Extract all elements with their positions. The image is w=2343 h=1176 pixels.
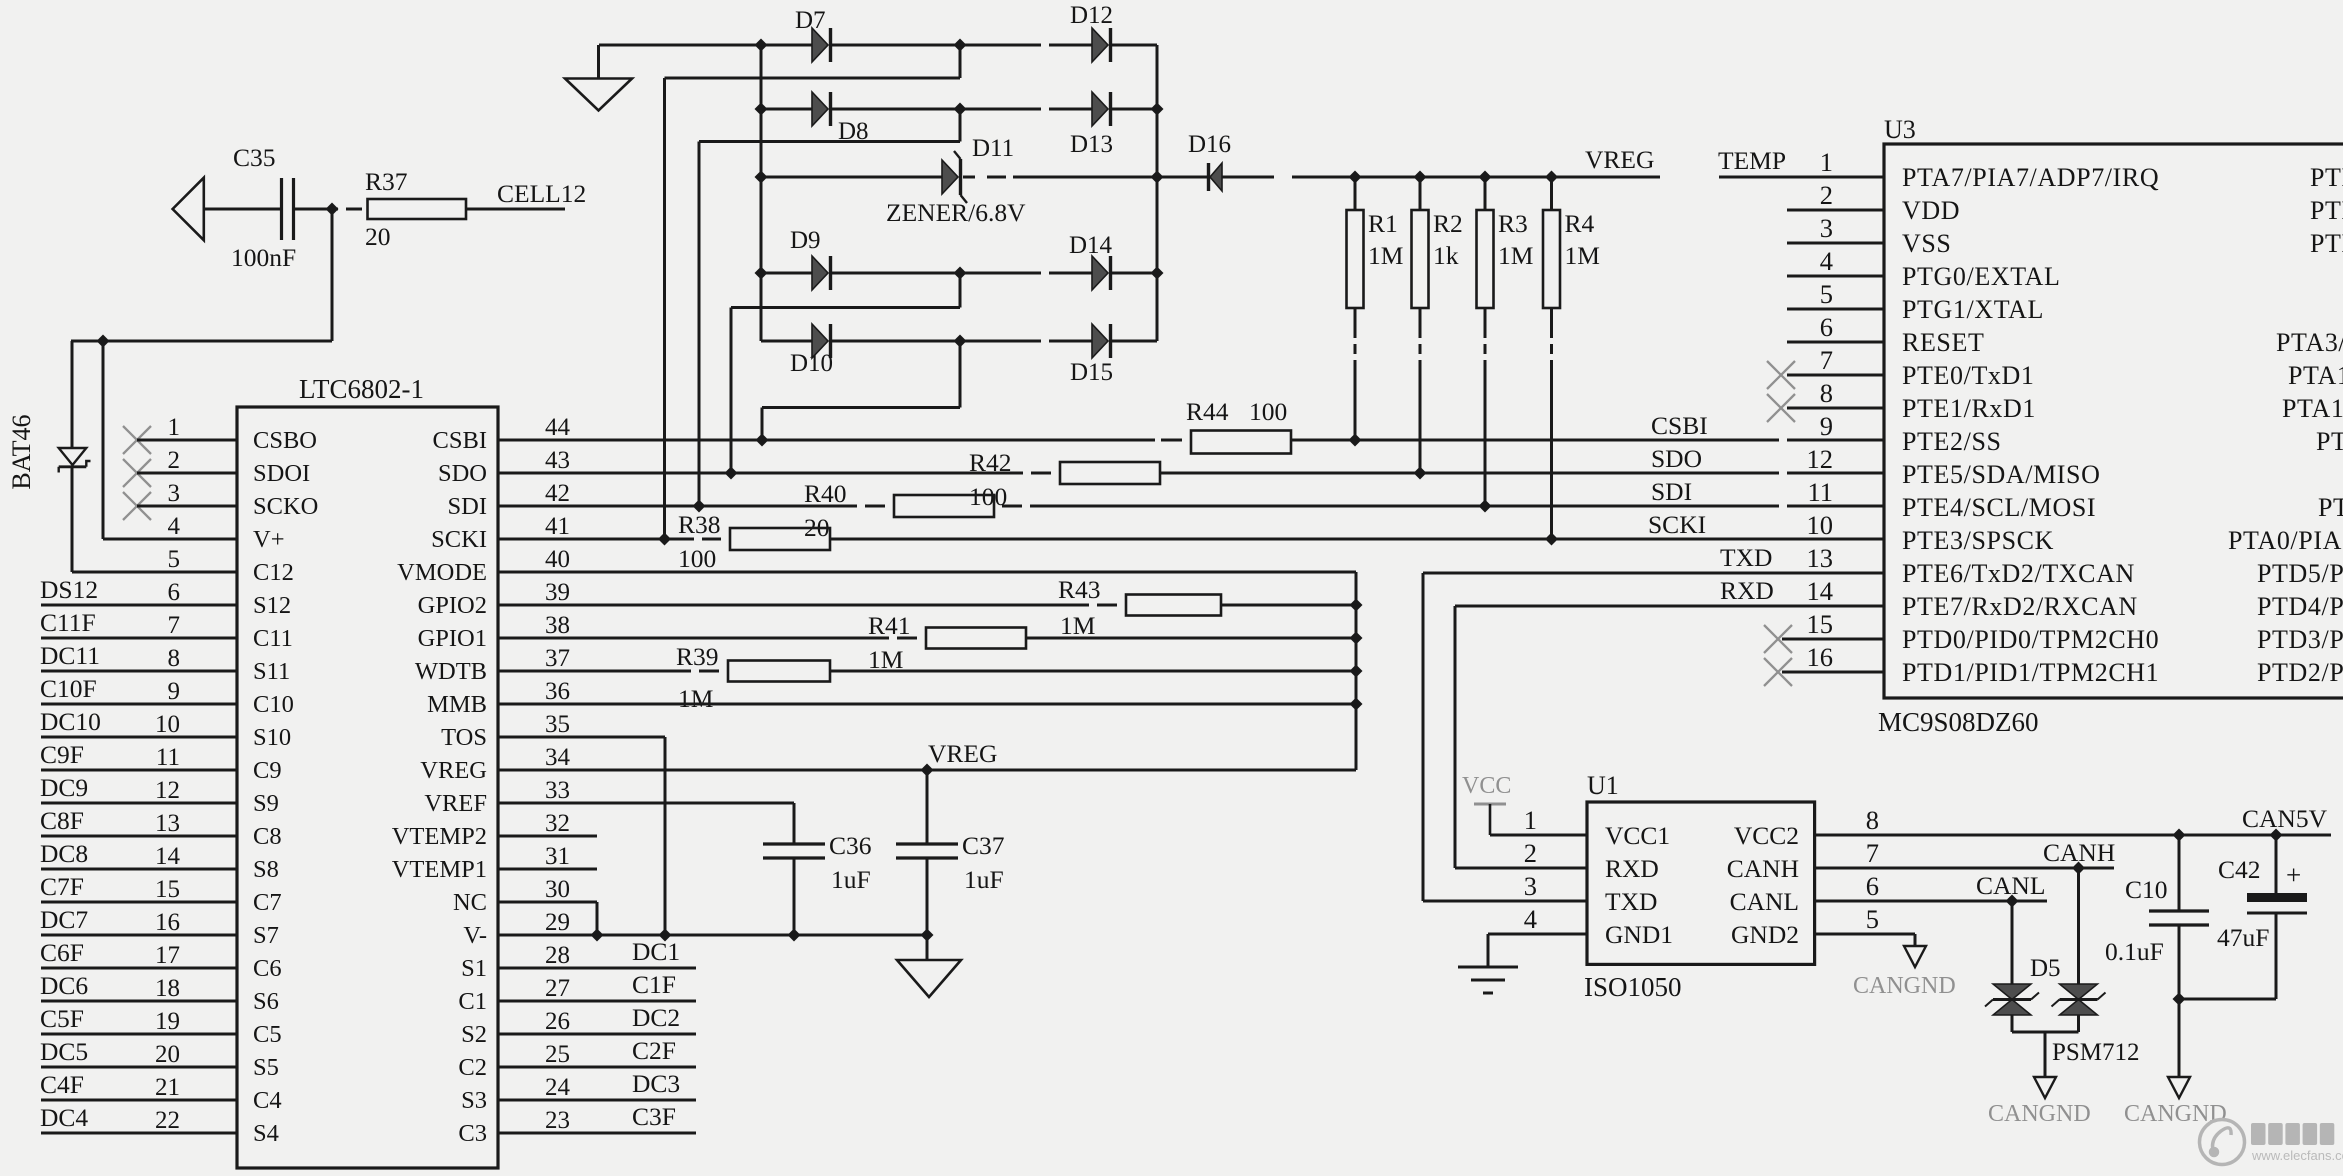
zener diode D11 [942, 151, 967, 203]
wire net DC9 [41, 802, 237, 805]
svg-text:PTB1: PTB1 [2310, 196, 2343, 225]
junction VREG / C37 [921, 764, 934, 777]
wire row B right [1110, 108, 1157, 111]
capacitor C36 [763, 831, 872, 894]
capacitor C37 [896, 831, 1005, 894]
resistor R4 [1543, 209, 1600, 308]
svg-text:R39: R39 [676, 642, 719, 671]
svg-text:PTA1/PIA1: PTA1/PIA1 [2282, 394, 2343, 423]
wire D5b bottom [2077, 1015, 2080, 1032]
svg-text:LTC6802-1: LTC6802-1 [299, 374, 424, 404]
junction D8-D13 midpoint [954, 103, 967, 116]
wire tap B to SDI row [698, 142, 701, 507]
svg-text:R2: R2 [1433, 209, 1463, 238]
capacitor C35 [231, 143, 296, 272]
svg-text:PTE1/RxD1: PTE1/RxD1 [1902, 394, 2036, 423]
svg-text:37: 37 [545, 645, 570, 672]
wire TEMP (U3 pin1) [1719, 176, 1884, 179]
wire VTEMP1 stub (pin31) [498, 868, 597, 871]
svg-text:R40: R40 [804, 479, 847, 508]
wire NC stub (pin30) [498, 901, 597, 904]
svg-text:2: 2 [1524, 838, 1537, 868]
IC U2 LTC6802-1 box [237, 407, 498, 1168]
svg-text:TOS: TOS [441, 724, 487, 751]
capacitor C10 [2105, 875, 2209, 966]
wire row C after D11 [963, 176, 975, 179]
wire dash before R38 [702, 538, 721, 541]
power symbol VCC [1474, 804, 1506, 835]
IC U3 MC9S08DZ60 box [1884, 144, 2343, 698]
svg-text:D14: D14 [1069, 232, 1113, 259]
no-connect X on U3 pin 16 [1764, 658, 1792, 686]
wire dash before R43 [1097, 604, 1117, 607]
svg-text:R44: R44 [1186, 397, 1229, 426]
svg-text:38: 38 [545, 612, 570, 639]
wire row C right [1013, 176, 1157, 179]
svg-text:+: + [2286, 860, 2301, 890]
wire C42 lower [2275, 913, 2278, 999]
wire net C10F [41, 703, 237, 706]
svg-text:C12: C12 [253, 559, 294, 586]
svg-text:D15: D15 [1070, 359, 1113, 386]
svg-text:PTE7/RxD2/RXCAN: PTE7/RxD2/RXCAN [1902, 592, 2138, 621]
svg-text:GPIO2: GPIO2 [418, 592, 487, 619]
svg-text:C37: C37 [962, 831, 1005, 860]
svg-text:1uF: 1uF [964, 865, 1004, 894]
junction R3 / row [1479, 500, 1492, 513]
svg-text:100: 100 [678, 544, 716, 573]
svg-text:R1: R1 [1368, 209, 1398, 238]
wire C10-C42 bottom link [2179, 998, 2276, 1001]
svg-text:C2F: C2F [632, 1036, 676, 1065]
svg-text:WDTB: WDTB [415, 658, 487, 685]
svg-text:R38: R38 [678, 510, 721, 539]
junction row C / right rail [1151, 171, 1164, 184]
svg-text:D7: D7 [795, 7, 826, 34]
junction tap D / SDO [725, 467, 738, 480]
wire net DC3 (pin 24) [498, 1099, 696, 1102]
svg-text:34: 34 [545, 744, 571, 771]
svg-text:SDO: SDO [438, 460, 487, 487]
wire net DC4 [41, 1132, 237, 1135]
wire V+ to LTC pin 4 [103, 538, 237, 541]
wire node A to BAT46 top [71, 340, 332, 343]
svg-text:VCC2: VCC2 [1734, 821, 1799, 850]
wire VTEMP2 stub (pin32) [498, 835, 597, 838]
wire VREG to R3 [1484, 177, 1487, 210]
svg-text:8: 8 [1820, 378, 1833, 408]
wire WDTB row (pin37 to R39) [498, 670, 691, 673]
svg-text:S2: S2 [461, 1021, 487, 1048]
junction CAN5V / C10 [2173, 829, 2186, 842]
watermark text [2251, 1123, 2343, 1163]
wire net C1F (pin 27) [498, 1000, 696, 1003]
wire row A to D12 [1049, 44, 1092, 47]
svg-text:PTD1/PID1/TPM2CH1: PTD1/PID1/TPM2CH1 [1902, 658, 2159, 687]
svg-text:2: 2 [168, 447, 181, 474]
wire bus vertical [1355, 572, 1358, 770]
IC U1 ISO1050 box [1587, 802, 1815, 964]
svg-text:S7: S7 [253, 922, 279, 949]
wire dash before R40 [865, 505, 885, 508]
svg-text:30: 30 [545, 876, 570, 903]
junction CANH [2072, 862, 2085, 875]
svg-text:7: 7 [1820, 345, 1833, 375]
svg-text:ISO1050: ISO1050 [1584, 972, 1682, 1002]
svg-text:36: 36 [545, 678, 570, 705]
no-connect X on LTC pin 2 [123, 459, 151, 487]
svg-text:33: 33 [545, 777, 570, 804]
svg-text:14: 14 [155, 843, 181, 870]
svg-text:2: 2 [1820, 180, 1833, 210]
svg-text:32: 32 [545, 810, 570, 837]
svg-text:TEMP: TEMP [1718, 146, 1786, 175]
wire net C8F [41, 835, 237, 838]
svg-text:PTD4/PID4: PTD4/PID4 [2257, 592, 2343, 621]
wire C10 upper [2178, 835, 2181, 911]
svg-text:PSM712: PSM712 [2052, 1039, 2140, 1066]
svg-text:5: 5 [1866, 904, 1879, 934]
wire dash before R39 [699, 670, 719, 673]
svg-text:VCC1: VCC1 [1605, 821, 1670, 850]
wire CANL to D5 [2011, 901, 2014, 984]
svg-text:CANL: CANL [1730, 887, 1799, 916]
wire D5a bottom [2011, 1015, 2014, 1032]
svg-text:4: 4 [1820, 246, 1833, 276]
svg-text:PTD3/PID3: PTD3/PID3 [2257, 625, 2343, 654]
wire stub LTC pin 3 [137, 505, 237, 508]
wire row D right [1110, 272, 1157, 275]
ground symbol (top left) [565, 79, 632, 111]
junction V+ tap [97, 335, 110, 348]
svg-text:C10F: C10F [40, 674, 97, 703]
svg-text:PTC: PTC [2318, 493, 2343, 522]
node A junction [326, 203, 339, 216]
wire VREG to R4 [1550, 177, 1553, 210]
wire VCC to U1 pin 1 [1490, 834, 1587, 837]
svg-text:PTE6/TxD2/TXCAN: PTE6/TxD2/TXCAN [1902, 559, 2135, 588]
svg-text:42: 42 [545, 480, 570, 507]
svg-text:CANL: CANL [1976, 871, 2045, 900]
svg-text:20: 20 [155, 1041, 180, 1068]
diode BAT46 (schottky) [59, 448, 91, 473]
wire VREG to R1 [1354, 177, 1357, 210]
wire VREG net [1292, 176, 1660, 179]
wire stub LTC pin 1 [137, 439, 237, 442]
svg-text:TXD: TXD [1720, 543, 1772, 572]
junction D10-D15 midpoint [954, 335, 967, 348]
svg-text:CSBI: CSBI [433, 427, 487, 454]
resistor R1 [1347, 209, 1404, 308]
svg-text:C7F: C7F [40, 872, 84, 901]
watermark logo [2200, 1120, 2245, 1165]
wire C10 to CANGND [2178, 999, 2181, 1077]
svg-text:PTA7/PIA7/ADP7/IRQ: PTA7/PIA7/ADP7/IRQ [1902, 163, 2159, 192]
svg-text:1M: 1M [1368, 241, 1403, 270]
svg-text:DC2: DC2 [632, 1003, 680, 1032]
wire row E right [1110, 340, 1157, 343]
diode D13 [1092, 92, 1111, 126]
svg-text:1: 1 [168, 414, 181, 441]
wire RXD to U1 pin 2 [1455, 867, 1587, 870]
svg-text:PTD5/PID5: PTD5/PID5 [2257, 559, 2343, 588]
wire net C11F [41, 637, 237, 640]
wire D16 to VREG net [1222, 176, 1274, 179]
wire net C7F [41, 901, 237, 904]
wire SDO gap segment [1787, 472, 1884, 475]
junction R1 / row [1349, 434, 1362, 447]
wire net DC10 [41, 736, 237, 739]
resistor R43 [1058, 575, 1221, 640]
wire net C2F (pin 25) [498, 1066, 696, 1069]
junction row D / right rail [1151, 267, 1164, 280]
wire U3 pin 2 stub [1787, 209, 1884, 212]
svg-text:VDD: VDD [1902, 196, 1960, 225]
wire tap A down [959, 45, 962, 78]
svg-text:31: 31 [545, 843, 570, 870]
svg-text:S12: S12 [253, 592, 291, 619]
wire net DC1 (pin 28) [498, 967, 696, 970]
ground symbol V- [897, 960, 961, 997]
svg-text:10: 10 [155, 711, 180, 738]
wire CANL row (U1 pin6) [1815, 900, 2047, 903]
svg-text:C6F: C6F [40, 938, 84, 967]
svg-text:CSBI: CSBI [1651, 411, 1708, 440]
junction CAN5V / C42 [2270, 829, 2283, 842]
svg-text:SCKO: SCKO [253, 493, 318, 520]
svg-text:16: 16 [155, 909, 180, 936]
wire net C3F (pin 23) [498, 1132, 696, 1135]
svg-text:C11: C11 [253, 625, 293, 652]
svg-text:DC3: DC3 [632, 1069, 680, 1098]
svg-text:C1F: C1F [632, 970, 676, 999]
wire dash after R40 [1002, 505, 1022, 508]
junction R2 / row [1414, 467, 1427, 480]
svg-text:C9F: C9F [40, 740, 84, 769]
wire tap A to SCKI row [663, 78, 666, 539]
svg-text:23: 23 [545, 1107, 570, 1134]
wire dash row C [987, 176, 1006, 179]
svg-text:8: 8 [168, 645, 181, 672]
svg-text:1M: 1M [678, 684, 713, 713]
svg-text:14: 14 [1807, 576, 1834, 606]
svg-text:PTD0/PID0/TPM2CH0: PTD0/PID0/TPM2CH0 [1902, 625, 2159, 654]
svg-text:1M: 1M [1060, 611, 1095, 640]
svg-text:12: 12 [1807, 444, 1834, 474]
svg-text:9: 9 [1820, 411, 1833, 441]
svg-text:CANGND: CANGND [1853, 973, 1956, 999]
svg-text:C35: C35 [233, 143, 276, 172]
wire R41 to bus [1026, 637, 1356, 640]
wire right rail (cathodes) [1156, 45, 1159, 341]
svg-text:C2: C2 [458, 1054, 487, 1081]
svg-text:S11: S11 [253, 658, 290, 685]
svg-text:DC6: DC6 [40, 971, 88, 1000]
svg-text:10: 10 [1807, 510, 1834, 540]
svg-text:S4: S4 [253, 1120, 279, 1147]
wire RXD row (U3 pin14) [1455, 605, 1884, 608]
wire tap B down [959, 109, 962, 142]
capacitor C42 (polarized) [2217, 855, 2307, 952]
wire TXD row (U3 pin13) [1423, 572, 1884, 575]
junction row C / left rail [755, 171, 768, 184]
junction VREG / R3 [1479, 171, 1492, 184]
wire TOS down to V- [664, 737, 667, 935]
wire SDO row (pin43 to R42) [498, 472, 1023, 475]
svg-text:C11F: C11F [40, 608, 96, 637]
svg-text:BAT46: BAT46 [7, 414, 36, 489]
wire tap A across [665, 77, 961, 80]
svg-text:C42: C42 [2218, 855, 2261, 884]
svg-text:PTE4/SCL/MOSI: PTE4/SCL/MOSI [1902, 493, 2096, 522]
wire R3 dash [1484, 344, 1487, 354]
diode D14 [1092, 256, 1111, 290]
wire CSBI gap segment [1787, 439, 1884, 442]
wire TXD vertical [1422, 573, 1425, 901]
wire RXD vertical [1454, 606, 1457, 868]
svg-text:7: 7 [168, 612, 181, 639]
wire GND2 row (U1 pin5) [1815, 933, 1915, 936]
svg-text:CAN5V: CAN5V [2242, 804, 2328, 833]
wire row D to D14 [1049, 272, 1092, 275]
svg-text:GND2: GND2 [1731, 920, 1799, 949]
wire CSBI row (pin44 to R44) [498, 439, 1155, 442]
svg-text:C9: C9 [253, 757, 282, 784]
svg-text:C3: C3 [458, 1120, 487, 1147]
svg-text:RXD: RXD [1605, 854, 1659, 883]
svg-text:0.1uF: 0.1uF [2105, 937, 2164, 966]
svg-text:C36: C36 [829, 831, 872, 860]
svg-text:C4: C4 [253, 1087, 282, 1114]
svg-text:4: 4 [1524, 904, 1537, 934]
wire VREG row (pin34) [498, 769, 1356, 772]
svg-text:13: 13 [1807, 543, 1834, 573]
svg-text:DC5: DC5 [40, 1037, 88, 1066]
svg-text:1M: 1M [1498, 241, 1533, 270]
wire rail to D16 [1157, 176, 1209, 179]
resistor R44 [1186, 397, 1291, 454]
svg-text:VREG: VREG [1585, 145, 1654, 174]
svg-text:S3: S3 [461, 1087, 487, 1114]
svg-text:S10: S10 [253, 724, 291, 751]
svg-text:U3: U3 [1884, 115, 1916, 144]
junction WDTB / bus [1350, 665, 1363, 678]
wire V+ vertical [102, 341, 105, 539]
svg-text:PTA0/PIA0: PTA0/PIA0 [2228, 526, 2343, 555]
svg-text:8: 8 [1866, 805, 1879, 835]
svg-text:V+: V+ [253, 526, 285, 553]
svg-text:13: 13 [155, 810, 180, 837]
svg-text:21: 21 [155, 1074, 180, 1101]
junction GPIO2 / bus [1350, 599, 1363, 612]
wire R3 lower [1484, 308, 1487, 338]
svg-text:100: 100 [1249, 397, 1287, 426]
svg-text:22: 22 [155, 1107, 180, 1134]
svg-text:PTA3/PIA3: PTA3/PIA3 [2276, 328, 2343, 357]
svg-text:S6: S6 [253, 988, 279, 1015]
svg-text:S5: S5 [253, 1054, 279, 1081]
svg-text:C6: C6 [253, 955, 282, 982]
wire R3 to row [1484, 360, 1487, 506]
resistor R39 [676, 642, 830, 713]
wire R40 to U3 pin 11 [1030, 505, 1779, 508]
wire row B mid [830, 108, 1041, 111]
svg-text:D10: D10 [790, 350, 833, 377]
svg-text:MC9S08DZ60: MC9S08DZ60 [1878, 707, 2039, 737]
wire row C left [761, 176, 942, 179]
svg-text:9: 9 [168, 678, 181, 705]
wire dash before R42 [1031, 472, 1051, 475]
svg-text:PTD2/PID2: PTD2/PID2 [2257, 658, 2343, 687]
svg-text:www.elecfans.com: www.elecfans.com [2251, 1148, 2343, 1163]
wire CANH row (U1 pin7) [1815, 867, 2114, 870]
wire row A mid [830, 44, 1041, 47]
junction GPIO1 / bus [1350, 632, 1363, 645]
junction VREG / R4 [1545, 171, 1558, 184]
wire tap B across [699, 140, 960, 143]
svg-text:17: 17 [155, 942, 180, 969]
svg-text:VMODE: VMODE [397, 559, 487, 586]
svg-text:RESET: RESET [1902, 328, 1984, 357]
wire U1 pin 4 (GND1) [1488, 933, 1587, 936]
junction NC / V- [591, 929, 604, 942]
diode D9 [812, 256, 831, 290]
svg-text:12: 12 [155, 777, 180, 804]
svg-text:C10: C10 [2125, 875, 2168, 904]
wire dash before R41 [897, 637, 917, 640]
net arrow (input) for C35 [173, 178, 204, 241]
svg-text:DC10: DC10 [40, 707, 101, 736]
wire dash before R44 [1161, 439, 1182, 442]
wire SDI row (pin42 to R40) [498, 505, 857, 508]
wire R44 to U3 pin 9 [1291, 439, 1779, 442]
svg-text:11: 11 [1807, 477, 1833, 507]
svg-text:3: 3 [1820, 213, 1833, 243]
svg-text:MMB: MMB [427, 691, 487, 718]
wire net DS12 [41, 604, 237, 607]
svg-text:1k: 1k [1433, 241, 1459, 270]
diode D15 [1092, 324, 1111, 358]
junction CANL [2006, 895, 2019, 908]
svg-text:D12: D12 [1070, 2, 1113, 29]
junction tap E / CSBI [756, 434, 769, 447]
svg-text:D16: D16 [1188, 131, 1231, 158]
svg-text:D9: D9 [790, 227, 821, 254]
svg-text:47uF: 47uF [2217, 923, 2269, 952]
wire R4 to row [1550, 360, 1553, 539]
wire R38 to U3 pin 10 [830, 538, 1884, 541]
svg-text:1uF: 1uF [831, 865, 871, 894]
svg-text:C5F: C5F [40, 1004, 84, 1033]
wire C10 lower [2178, 925, 2181, 999]
svg-text:U1: U1 [1587, 771, 1619, 800]
svg-text:DC4: DC4 [40, 1103, 88, 1132]
wire GND2 down [1914, 934, 1917, 946]
wire net DC5 [41, 1066, 237, 1069]
wire U3 pin 3 stub [1787, 242, 1884, 245]
wire CANH to D5 [2077, 868, 2080, 984]
svg-text:PTA1: PTA1 [2288, 361, 2343, 390]
wire arrow to C35 [204, 208, 282, 211]
junction D7-D12 midpoint [954, 39, 967, 52]
no-connect X on U3 pin 15 [1764, 625, 1792, 653]
svg-text:PTB0: PTB0 [2310, 163, 2343, 192]
wire tap D across [731, 306, 960, 309]
junction tap B / SDI [693, 500, 706, 513]
svg-text:6: 6 [168, 579, 181, 606]
wire row A left [599, 44, 812, 47]
svg-text:CELL12: CELL12 [497, 179, 586, 208]
